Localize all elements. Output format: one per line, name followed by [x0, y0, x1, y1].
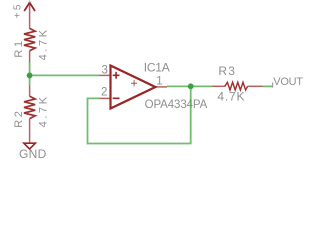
- svg-text:1: 1: [156, 75, 162, 87]
- wire R1 to node A: [29, 62, 31, 86]
- svg-text:R3: R3: [218, 64, 236, 78]
- svg-text:R1: R1: [13, 38, 25, 57]
- svg-text:4.7K: 4.7K: [217, 90, 245, 104]
- op-amp minus input marker: [113, 97, 120, 99]
- IC1A pin 1 lead: [155, 86, 167, 88]
- wire node A to IC1A pin 3: [30, 74, 99, 76]
- ground GND symbol: [24, 143, 36, 149]
- VOUT label tick: [272, 82, 274, 87]
- svg-text:OPA4334PA: OPA4334PA: [145, 99, 208, 111]
- junction node B: [188, 83, 194, 89]
- svg-text:4.7K: 4.7K: [38, 27, 50, 60]
- svg-text:+5: +5: [12, 2, 23, 18]
- svg-text:VOUT: VOUT: [273, 76, 303, 88]
- svg-text:IC1A: IC1A: [144, 61, 170, 75]
- resistor R3: [212, 82, 263, 90]
- supply +5 arrow: [24, 3, 35, 29]
- op-amp center plus marker: [131, 80, 137, 86]
- junction node A: [27, 73, 33, 79]
- wire R3 to VOUT: [262, 85, 272, 87]
- op-amp IC1A triangle: [111, 66, 156, 109]
- svg-text:2: 2: [101, 87, 107, 99]
- svg-text:3: 3: [102, 65, 108, 77]
- svg-text:R2: R2: [13, 109, 25, 128]
- IC1A pin 2 lead: [99, 97, 110, 99]
- supply +5 origin cross: [28, 0, 32, 4]
- svg-text:4.7K: 4.7K: [38, 94, 50, 127]
- feedback wire pin2 to node B: [88, 86, 191, 143]
- resistor R2: [24, 86, 35, 143]
- op-amp plus input marker: [113, 72, 120, 79]
- IC1A pin 3 lead: [99, 74, 111, 76]
- svg-text:GND: GND: [19, 147, 47, 161]
- wire pin1 to node B: [167, 85, 212, 87]
- resistor R1: [24, 28, 35, 62]
